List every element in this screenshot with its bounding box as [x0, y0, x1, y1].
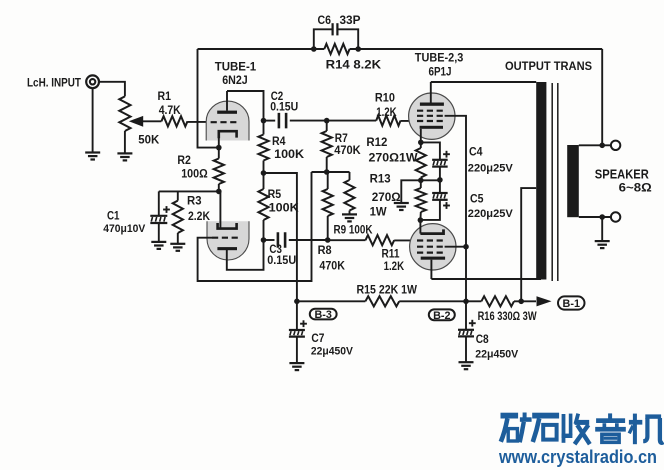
tube U1b envelope (6N2J lower triode) [207, 221, 249, 260]
svg-text:R9 100K: R9 100K [334, 222, 373, 236]
svg-text:1.2K: 1.2K [384, 259, 405, 273]
resistor R1 4.7K [158, 89, 188, 126]
svg-text:www.crystalradio.cn: www.crystalradio.cn [498, 446, 657, 467]
resistor R5 100K [258, 173, 299, 220]
capacitor C8 22u450V [458, 320, 519, 361]
ground below C1 [151, 242, 166, 249]
svg-text:R3: R3 [187, 194, 202, 208]
tube U3 screen grids (dashed) [417, 241, 445, 253]
wire R3 lead [177, 191, 179, 200]
svg-text:100Ω: 100Ω [181, 167, 208, 181]
wire jack to potentiometer [99, 82, 125, 97]
wire C4 to mid node [439, 167, 441, 180]
wire rail B-3 to R15 [297, 300, 366, 302]
wire feedback down [601, 49, 603, 145]
wire to R11 [328, 239, 366, 241]
tube U3 plate [421, 257, 445, 279]
resistor R3 2.2K [173, 194, 211, 234]
svg-text:LcH. INPUT: LcH. INPUT [27, 78, 81, 90]
wire C1 to ground [158, 223, 160, 242]
wire primary tap to B-1 [521, 188, 536, 301]
resistor R2 100Ω [177, 153, 224, 184]
tube U3 cathode [420, 220, 443, 234]
svg-text:TUBE-2,3: TUBE-2,3 [415, 53, 464, 65]
tube U2 screen grids (dashed) [417, 111, 445, 121]
wire pot to ground [124, 131, 126, 153]
tube U1a envelope (6N2J upper triode) [206, 101, 249, 140]
ground below R3 [170, 244, 185, 251]
ground at R12/R13 junction [394, 203, 409, 210]
node feedback/C6 right tap [355, 46, 361, 52]
node R12/R13 junction [418, 178, 424, 184]
speaker terminal top [611, 141, 620, 150]
svg-text:B-1: B-1 [563, 298, 580, 310]
label 6N2J [222, 73, 248, 87]
node bias junction [216, 189, 222, 195]
wire to C2 [264, 120, 276, 122]
resistor R15 22K 1W [357, 283, 418, 307]
tube U1a cathode [219, 131, 237, 147]
svg-text:B-2: B-2 [433, 310, 450, 322]
tube U3 envelope (6P1J) [410, 224, 456, 270]
wire R2 to bias junction [218, 184, 220, 191]
node U3 screen junction [463, 244, 469, 250]
wire U1a plate to C2 node [227, 91, 264, 121]
wire U2 screen to B-2 vertical [445, 116, 466, 301]
node C4/C5 mid junction [437, 177, 443, 183]
watermark url text [498, 446, 657, 467]
wire cathode junction to R2 [218, 148, 220, 159]
node cathode/feedback junction [216, 145, 222, 151]
capacitor C1 470u10V [103, 206, 170, 235]
tube U2 plate [420, 82, 444, 106]
wire feedback vertical left [198, 49, 219, 148]
badge B-1 [558, 296, 585, 310]
svg-text:470μ10V: 470μ10V [103, 223, 146, 235]
svg-text:2.2K: 2.2K [188, 209, 210, 223]
tube U1b grid (dashed) [212, 237, 240, 239]
wire mid node bar [421, 179, 440, 181]
wire R5 to C3 node [263, 220, 265, 240]
wire grid feed of U1b [198, 172, 312, 281]
wire R16 to B-1 node [514, 300, 536, 302]
wire secondary bottom to terminal [579, 216, 611, 218]
wire C2 to R7/R10 line [290, 120, 327, 122]
input jack J1 [27, 75, 99, 89]
svg-text:R5: R5 [268, 187, 282, 201]
wire U1b plate lead [227, 240, 264, 270]
resistor R13 270Ω 1W [370, 171, 426, 220]
pot wiper arrow [129, 116, 162, 127]
ground below C7 [289, 363, 304, 370]
tube U2 envelope (6P1J) [409, 93, 455, 139]
svg-text:220μ25V: 220μ25V [468, 162, 514, 174]
svg-text:1.2K: 1.2K [376, 105, 397, 119]
label 6P1J [429, 64, 452, 78]
svg-text:R16 330Ω 3W: R16 330Ω 3W [478, 309, 538, 323]
svg-text:SPEAKER: SPEAKER [595, 168, 649, 182]
wire divider junction bar [312, 171, 350, 173]
svg-text:R15 22K 1W: R15 22K 1W [357, 283, 418, 297]
label TUBE-2,3 [415, 53, 464, 65]
wire R4 to mid junction [263, 161, 265, 174]
svg-text:4.7K: 4.7K [159, 103, 181, 117]
svg-text:C1: C1 [107, 211, 120, 223]
wire R1 to tube1 grid [188, 121, 212, 123]
tube U1b cathode [218, 191, 237, 228]
svg-text:C6: C6 [318, 15, 332, 27]
transformer primary winding [536, 82, 546, 280]
resistor R10 1.2K [375, 90, 401, 125]
wire C8 to ground [465, 336, 467, 361]
label TUBE-1 [215, 62, 257, 74]
resistor R12 270Ω 1W [366, 135, 426, 180]
tube U1a grid (dashed) [211, 121, 239, 123]
svg-text:B-3: B-3 [314, 309, 331, 321]
wire C5 to R13 bottom [420, 200, 440, 220]
transformer secondary winding [567, 145, 579, 217]
svg-text:270Ω1W: 270Ω1W [369, 151, 419, 165]
node C3/R5/plate junction [261, 237, 267, 243]
watermark logo text [501, 413, 664, 445]
ground below R9 [342, 214, 357, 221]
wire C3 to R8/R11 line [289, 239, 328, 241]
tube U2 cathode [420, 126, 443, 143]
svg-text:470K: 470K [334, 143, 361, 157]
wire to R10 [327, 120, 377, 122]
arrow to B-1 [537, 296, 552, 306]
wire U3 plate line to transformer [431, 278, 541, 280]
wire cathode to C4 [421, 142, 440, 159]
resistor R8 470K [318, 172, 346, 272]
capacitor C6 33P branch [314, 15, 361, 49]
node R4/R5 mid junction (B-3 feed) [261, 170, 267, 176]
node feedback/C6 left tap [311, 46, 317, 52]
resistor R14 8.2K [324, 44, 381, 72]
svg-text:470K: 470K [319, 258, 345, 272]
wire B-3 to C7 [296, 301, 298, 330]
capacitor C7 22u450V [289, 320, 354, 357]
node R7 top junction [324, 118, 330, 124]
svg-text:100K: 100K [269, 200, 299, 214]
ground below jack [85, 153, 100, 160]
svg-text:OUTPUT TRANS: OUTPUT TRANS [505, 59, 592, 73]
wire C3 node to C3 [264, 239, 275, 241]
resistor R7 470K [322, 121, 361, 172]
svg-text:R13: R13 [370, 171, 391, 185]
wire rail to R16 [466, 300, 481, 302]
capacitor C2 0.15U [270, 91, 298, 128]
node B-1 junction [518, 299, 524, 305]
wire C7 to ground [296, 337, 298, 363]
ground below potentiometer [117, 153, 132, 160]
svg-text:C7: C7 [311, 333, 324, 345]
svg-text:6~8Ω: 6~8Ω [619, 181, 652, 195]
svg-text:C8: C8 [476, 334, 490, 346]
capacitor C5 220u25V [432, 180, 513, 220]
badge B-3 [310, 309, 337, 321]
badge B-2 [429, 309, 455, 321]
node U2 cathode junction [418, 140, 424, 146]
wire feedback top line left [198, 48, 325, 50]
svg-text:0.15U: 0.15U [270, 102, 298, 114]
svg-text:220μ25V: 220μ25V [468, 208, 514, 220]
svg-text:33P: 33P [340, 15, 361, 27]
svg-text:C5: C5 [470, 193, 484, 205]
svg-text:22μ450V: 22μ450V [311, 345, 354, 357]
svg-text:100K: 100K [274, 147, 304, 161]
node speaker ground tap [599, 214, 605, 220]
node R8 bottom junction [325, 237, 331, 243]
resistor R11 1.2K [366, 235, 405, 273]
svg-text:50K: 50K [138, 133, 159, 147]
capacitor C3 0.15U [267, 232, 296, 267]
wire R3 to ground [177, 233, 179, 243]
wire bias junction to C1/R3 [159, 190, 219, 192]
wire jack to ground [92, 88, 94, 152]
svg-text:0.15U: 0.15U [267, 255, 296, 267]
node R7/R8/R9 junction [324, 169, 330, 175]
wire C1 lead [158, 191, 160, 215]
wire feedback top line right [350, 48, 603, 50]
svg-text:R14 8.2K: R14 8.2K [326, 58, 382, 72]
svg-text:R2: R2 [177, 153, 191, 167]
wire mid junction to B-3 rail [264, 173, 297, 301]
ground below speaker [595, 241, 610, 248]
wire U3 screen tap [445, 246, 466, 248]
transformer core line 2 [557, 83, 559, 281]
svg-text:R10: R10 [375, 90, 395, 104]
capacitor C4 220u25V [432, 147, 513, 175]
tube U1a plate [217, 91, 237, 114]
wire U2 plate line to transformer [431, 81, 536, 83]
svg-text:R8: R8 [318, 243, 332, 257]
wire junction to ground [401, 180, 421, 202]
node C2/R4 junction [261, 118, 267, 124]
svg-text:22μ450V: 22μ450V [475, 349, 519, 361]
svg-text:TUBE-1: TUBE-1 [215, 62, 257, 74]
label 6~8Ω [619, 181, 652, 195]
svg-text:1W: 1W [370, 204, 388, 218]
resistor R16 330Ω 3W [478, 296, 538, 323]
resistor R4 100K [258, 121, 304, 161]
wire R11 to U3 grid [394, 239, 417, 241]
node screens rail junction [463, 299, 469, 305]
wire R10 to U2 grid [401, 120, 419, 122]
svg-text:C4: C4 [469, 147, 483, 159]
tube U1b plate [217, 247, 237, 250]
wire secondary top to terminal [579, 144, 611, 146]
potentiometer VR1 50K [119, 96, 159, 146]
node R13 bottom junction [418, 217, 424, 223]
label SPEAKER [595, 168, 649, 182]
ground below C8 [459, 362, 474, 369]
svg-text:6N2J: 6N2J [222, 73, 248, 87]
wire rail R15 to screens node [399, 300, 466, 302]
resistor R9 100K [334, 172, 373, 236]
node B-3 rail junction [294, 299, 300, 305]
node feedback tap [599, 143, 605, 149]
wire to speaker ground [601, 217, 603, 241]
svg-text:R1: R1 [158, 89, 172, 103]
svg-text:6P1J: 6P1J [429, 64, 452, 78]
svg-text:270Ω: 270Ω [372, 190, 401, 204]
transformer core line 1 [551, 83, 553, 281]
svg-text:R12: R12 [366, 135, 387, 149]
speaker terminal bottom [611, 212, 620, 221]
wire B-2 to C8 [465, 301, 467, 330]
label OUTPUT TRANS [505, 59, 592, 73]
